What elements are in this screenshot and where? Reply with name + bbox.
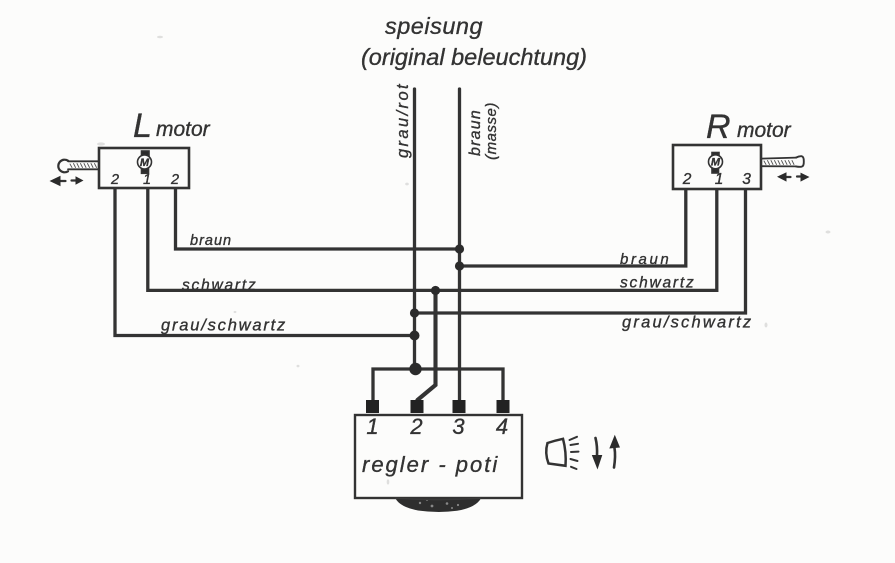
svg-text:2: 2 (110, 172, 119, 188)
svg-text:2: 2 (682, 171, 692, 188)
svg-text:speisung: speisung (385, 13, 483, 39)
svg-text:4: 4 (496, 414, 508, 439)
svg-text:1: 1 (366, 414, 378, 439)
svg-text:1: 1 (143, 172, 151, 188)
svg-text:braun: braun (190, 233, 232, 249)
svg-text:3: 3 (452, 414, 465, 439)
svg-text:M: M (711, 157, 721, 169)
svg-text:grau/schwartz: grau/schwartz (161, 317, 287, 335)
svg-text:grau/rot: grau/rot (394, 82, 412, 158)
svg-text:regler - poti: regler - poti (362, 452, 499, 477)
svg-text:2: 2 (409, 414, 422, 439)
svg-text:motor: motor (156, 118, 211, 141)
svg-text:braun: braun (467, 109, 484, 156)
svg-text:grau/schwartz: grau/schwartz (622, 314, 753, 332)
svg-text:braun: braun (620, 251, 671, 268)
svg-text:R: R (706, 108, 731, 146)
svg-text:schwartz: schwartz (182, 277, 258, 294)
svg-text:motor: motor (737, 119, 792, 142)
svg-text:L: L (133, 107, 152, 145)
svg-text:M: M (140, 157, 150, 169)
svg-text:schwartz: schwartz (620, 275, 696, 292)
svg-text:(original beleuchtung): (original beleuchtung) (361, 44, 587, 70)
svg-text:3: 3 (742, 171, 751, 188)
svg-text:2: 2 (170, 172, 179, 188)
svg-text:1: 1 (715, 171, 724, 188)
svg-text:(masse): (masse) (483, 102, 500, 160)
